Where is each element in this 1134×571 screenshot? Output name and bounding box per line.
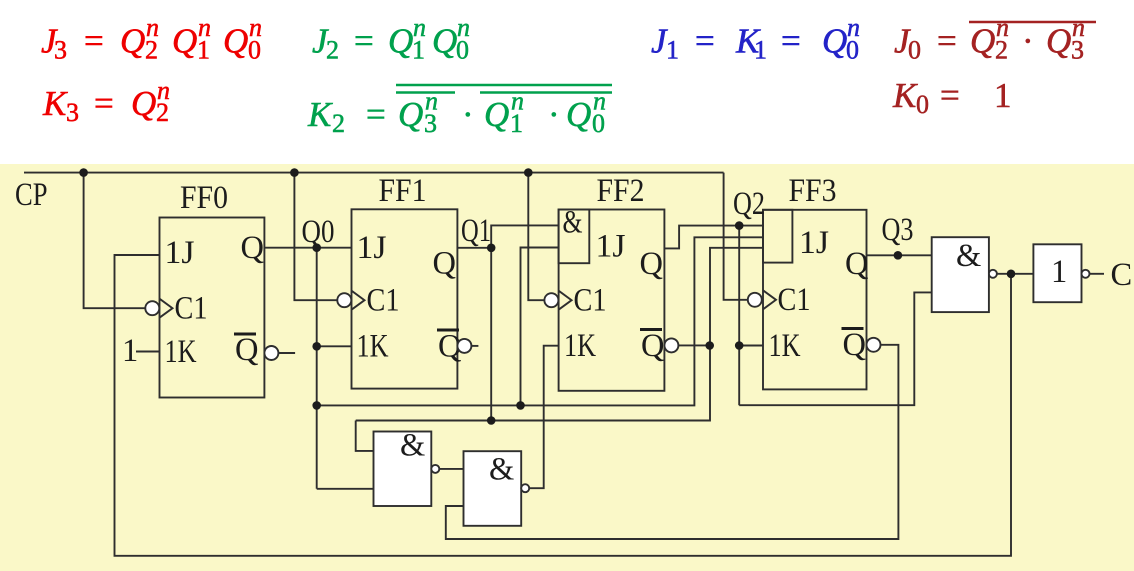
svg-text:Q: Q bbox=[235, 332, 258, 368]
svg-text:1: 1 bbox=[122, 333, 138, 369]
svg-text:&: & bbox=[400, 428, 425, 464]
svg-text:Q: Q bbox=[398, 95, 423, 134]
wire CP to FF0 clock bbox=[84, 173, 146, 309]
node Q1 bbox=[487, 244, 496, 253]
node Q2-K3 tap bbox=[735, 341, 744, 350]
wire FF0 Qbar stub bbox=[278, 352, 295, 354]
svg-text:Q: Q bbox=[131, 84, 156, 123]
node Q0-K1 tap bbox=[312, 342, 321, 351]
svg-text:Q2: Q2 bbox=[733, 186, 765, 222]
svg-text:Q: Q bbox=[641, 328, 664, 364]
svg-text:0: 0 bbox=[908, 36, 921, 65]
node Q3 bbox=[894, 251, 903, 260]
equation K0 = 1 (dark red) bbox=[892, 76, 1012, 119]
equation J2 = Q1n Q0n (green) bbox=[312, 13, 470, 65]
svg-text:FF3: FF3 bbox=[789, 173, 837, 209]
svg-text:1K: 1K bbox=[564, 328, 596, 364]
svg-text:FF0: FF0 bbox=[180, 180, 228, 216]
svg-text:C1: C1 bbox=[778, 282, 811, 318]
svg-text:Q: Q bbox=[566, 95, 591, 134]
equation J1 = K1 = Q0n (blue) bbox=[651, 13, 860, 65]
node Q1 bottom tap bbox=[487, 416, 496, 425]
svg-text:0: 0 bbox=[592, 109, 605, 138]
wire FF1 Qbar stub bbox=[471, 345, 478, 347]
equation J3 = Q2n Q1n Q0n (red) bbox=[41, 13, 262, 65]
equation J0 = overline(Q2n . Q3n) (dark red) bbox=[894, 13, 1096, 65]
wire G1 output to G2 upper input bbox=[439, 468, 463, 470]
svg-text:3: 3 bbox=[1071, 36, 1084, 65]
svg-text:0: 0 bbox=[248, 36, 261, 65]
wire G3 output to G4 input bbox=[997, 273, 1034, 275]
wire Q0 to FF1 K bbox=[317, 345, 352, 347]
node CP-FF0 bbox=[79, 168, 88, 177]
node Q0 bottom tap bbox=[312, 401, 321, 410]
svg-text:0: 0 bbox=[846, 36, 859, 65]
wire FF2 Qbar to Q1 riser bbox=[678, 344, 709, 346]
svg-text:=: = bbox=[84, 22, 104, 61]
svg-text:Q: Q bbox=[388, 22, 413, 61]
svg-text:=: = bbox=[937, 22, 957, 61]
wire FF3 Qbar down to G2 lower input bbox=[446, 345, 899, 539]
node G3 output junction bbox=[1007, 270, 1016, 279]
wire Q2 from FF2 Q to FF3 J gate bbox=[664, 226, 763, 249]
wire CP to FF3 clock bbox=[724, 173, 748, 300]
svg-text:1K: 1K bbox=[357, 329, 389, 365]
svg-text:FF2: FF2 bbox=[597, 173, 645, 209]
svg-text:Q: Q bbox=[845, 246, 868, 282]
wire K2 from G2 output to FF2 K bbox=[529, 346, 558, 489]
svg-text:2: 2 bbox=[332, 109, 345, 138]
svg-text:&: & bbox=[563, 205, 583, 241]
wire Q3 from FF3 Q to G3 bbox=[867, 254, 932, 256]
svg-text:Q: Q bbox=[172, 22, 197, 61]
wire Q0 vertical drop bbox=[316, 248, 318, 489]
svg-text:2: 2 bbox=[145, 36, 158, 65]
svg-text:1J: 1J bbox=[799, 225, 829, 261]
svg-text:K: K bbox=[42, 84, 68, 123]
svg-text:0: 0 bbox=[456, 36, 469, 65]
svg-text:3: 3 bbox=[424, 109, 437, 138]
svg-text:Q: Q bbox=[241, 230, 264, 266]
wire Q0 bottom run up to FF3 J gate bbox=[317, 237, 763, 405]
node CP-FF2 bbox=[524, 168, 533, 177]
flip-flop FF3 bbox=[748, 173, 881, 389]
equation K3 = Q2n (red) bbox=[42, 76, 170, 127]
svg-text:1: 1 bbox=[1051, 254, 1067, 290]
svg-text:Q: Q bbox=[120, 22, 145, 61]
svg-text:1K: 1K bbox=[165, 334, 197, 370]
node Q0-FF2 gate tap bbox=[516, 401, 525, 410]
svg-text:Q: Q bbox=[433, 246, 456, 282]
svg-text:FF1: FF1 bbox=[379, 173, 427, 209]
wire Q1 from FF1 Q bbox=[457, 247, 491, 249]
svg-text:1: 1 bbox=[197, 36, 210, 65]
wire G4 output to C bbox=[1090, 273, 1105, 275]
wire Q0 to G1 lower input bbox=[317, 488, 374, 490]
NAND gate G1 (Q1.Q0) bbox=[374, 428, 440, 507]
svg-text:K: K bbox=[892, 76, 918, 115]
wire Q0 to FF2 J gate lower input bbox=[521, 248, 559, 406]
svg-text:C1: C1 bbox=[175, 291, 208, 327]
svg-text:·: · bbox=[1022, 22, 1034, 61]
svg-text:Q0: Q0 bbox=[302, 214, 335, 250]
svg-text:1: 1 bbox=[666, 36, 679, 65]
svg-text:=: = bbox=[366, 95, 386, 134]
svg-text:0: 0 bbox=[916, 90, 929, 119]
NAND gate G2 (K2) bbox=[464, 451, 530, 526]
svg-text:Q: Q bbox=[223, 22, 248, 61]
svg-text:Q: Q bbox=[640, 246, 663, 282]
svg-text:Q: Q bbox=[970, 22, 995, 61]
svg-text:=: = bbox=[94, 84, 114, 123]
svg-text:1J: 1J bbox=[596, 229, 626, 265]
svg-text:Q: Q bbox=[843, 327, 866, 363]
svg-text:&: & bbox=[489, 452, 514, 488]
wire Q2 to FF3 K bbox=[739, 345, 763, 347]
node Q2 bbox=[735, 221, 744, 230]
svg-text:1: 1 bbox=[510, 109, 523, 138]
svg-text:1K: 1K bbox=[769, 328, 801, 364]
svg-text:Q: Q bbox=[484, 95, 509, 134]
wire Q1 bottom run up to FF3 J gate bbox=[356, 248, 763, 421]
svg-text:3: 3 bbox=[66, 98, 79, 127]
svg-text:=: = bbox=[695, 22, 715, 61]
inverter gate G4 (1) bbox=[1033, 244, 1089, 302]
svg-text:3: 3 bbox=[54, 36, 67, 65]
svg-text:=: = bbox=[354, 22, 374, 61]
node Qbar2 junction bbox=[705, 341, 714, 350]
NAND gate G3 (Q3.Q2) bbox=[932, 237, 997, 312]
svg-text:Q: Q bbox=[1046, 22, 1071, 61]
wire Q2 bottom run to G3 lower input bbox=[739, 292, 932, 405]
svg-text:C1: C1 bbox=[367, 283, 400, 319]
svg-text:2: 2 bbox=[326, 36, 339, 65]
svg-text:Q: Q bbox=[822, 22, 847, 61]
svg-text:=: = bbox=[781, 22, 801, 61]
svg-text:·: · bbox=[462, 95, 474, 134]
wire CP to FF1 clock bbox=[294, 173, 337, 301]
svg-text:&: & bbox=[956, 238, 981, 274]
wire CP to FF2 clock bbox=[528, 173, 544, 301]
node Q0 bbox=[312, 243, 321, 252]
svg-text:·: · bbox=[548, 95, 560, 134]
wire CP horizontal rail bbox=[24, 172, 724, 174]
svg-text:1: 1 bbox=[754, 36, 767, 65]
wire Q1 vertical drop bbox=[490, 248, 492, 421]
svg-text:Q: Q bbox=[432, 22, 457, 61]
circuit background panel bbox=[0, 164, 1134, 571]
wire J0 feedback from G3 output to FF0 J bbox=[115, 255, 1012, 556]
svg-text:2: 2 bbox=[156, 98, 169, 127]
equation K2 with double overline (green) bbox=[307, 85, 612, 138]
wire Q1 to FF2 J gate upper input bbox=[491, 225, 558, 247]
flip-flop FF0 bbox=[145, 180, 278, 398]
svg-text:K: K bbox=[307, 95, 333, 134]
node CP-FF1 bbox=[290, 168, 299, 177]
svg-text:1: 1 bbox=[412, 36, 425, 65]
svg-text:Q1: Q1 bbox=[461, 213, 491, 249]
wire Q0 from FF0 Q to FF1 J bbox=[264, 247, 351, 249]
svg-text:1J: 1J bbox=[357, 230, 387, 266]
svg-text:C: C bbox=[1111, 257, 1133, 293]
svg-text:2: 2 bbox=[995, 36, 1008, 65]
flip-flop FF1 bbox=[337, 173, 471, 389]
svg-text:Q3: Q3 bbox=[882, 212, 914, 248]
svg-text:C1: C1 bbox=[574, 283, 607, 319]
flip-flop FF2 bbox=[544, 173, 678, 391]
svg-text:=: = bbox=[940, 76, 960, 115]
wire constant 1 to FF0 K bbox=[136, 351, 160, 353]
wire Q2 vertical drop bbox=[738, 226, 740, 406]
svg-text:1J: 1J bbox=[165, 235, 195, 271]
svg-text:CP: CP bbox=[15, 177, 48, 213]
wire Q1 to G1 upper input bbox=[356, 421, 374, 451]
svg-text:1: 1 bbox=[994, 76, 1012, 115]
